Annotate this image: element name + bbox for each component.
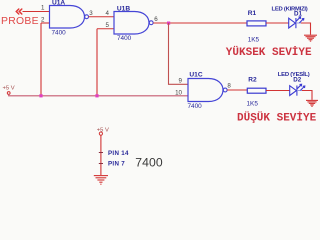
svg-text:2: 2 [41, 17, 45, 24]
pin tick 7 [99, 163, 103, 165]
LED D1 [289, 17, 304, 28]
svg-text:U1C: U1C [189, 72, 202, 79]
resistor R2 [247, 88, 266, 93]
+5V rail wire to U1C pin10 [9, 94, 188, 95]
svg-text:U1A: U1A [52, 0, 65, 7]
svg-text:1K5: 1K5 [248, 36, 260, 43]
+5V power terminal (left) [3, 85, 15, 94]
svg-text:PIN 14: PIN 14 [108, 150, 129, 157]
nand gate U1A [50, 6, 89, 29]
svg-text:1K5: 1K5 [247, 101, 259, 108]
svg-text:DÜŞÜK SEVİYE: DÜŞÜK SEVİYE [237, 112, 317, 125]
svg-text:U1B: U1B [117, 6, 130, 13]
svg-text:R1: R1 [248, 10, 257, 17]
svg-text:7400: 7400 [117, 35, 132, 42]
svg-text:10: 10 [175, 90, 182, 97]
ground (D2) [306, 100, 318, 106]
svg-text:9: 9 [179, 78, 183, 85]
wire junction down to U1C pin9 [169, 23, 189, 84]
svg-text:3: 3 [89, 10, 93, 17]
svg-text:7400: 7400 [52, 29, 67, 36]
svg-text:4: 4 [106, 10, 110, 17]
junction node at U1B output [167, 22, 170, 25]
wire U1B pin6 to R1 [153, 22, 247, 24]
nand gate U1C [188, 79, 227, 102]
svg-text:7400: 7400 [188, 103, 203, 110]
ground (bottom) [94, 176, 108, 185]
svg-text:YÜKSEK SEVİYE: YÜKSEK SEVİYE [226, 46, 312, 59]
wire R2 to LED D2 [266, 90, 290, 92]
LED D2 [290, 84, 305, 95]
resistor R1 [247, 21, 266, 26]
svg-text:PIN 7: PIN 7 [108, 161, 125, 168]
svg-text:6: 6 [154, 16, 158, 23]
svg-text:LED (KIRMIZI): LED (KIRMIZI) [272, 7, 308, 13]
wire pin2 down to +5V rail [40, 23, 42, 96]
wire D2 to ground [302, 91, 312, 100]
svg-text:D1: D1 [294, 11, 302, 18]
svg-text:8: 8 [227, 83, 231, 90]
wire probe to U1A pin1 [23, 11, 50, 13]
probe input chevron [16, 9, 22, 14]
svg-text:PROBE: PROBE [1, 16, 39, 27]
wire D1 to ground [301, 23, 311, 35]
svg-text:+5 V: +5 V [3, 85, 15, 91]
+5V power terminal (bottom) [97, 127, 109, 135]
svg-text:7400: 7400 [135, 156, 163, 170]
wire pin5 down to +5V rail [96, 29, 98, 96]
svg-text:5: 5 [106, 22, 110, 29]
wire U1C pin8 to R2 [227, 89, 247, 91]
nand gate U1B [114, 12, 153, 35]
svg-text:1: 1 [41, 5, 45, 12]
ground (D1) [304, 35, 317, 41]
svg-text:R2: R2 [248, 77, 257, 84]
wire U1B pin5 stub [97, 28, 114, 30]
pin tick 14 [99, 152, 103, 154]
wire R1 to LED D1 [266, 22, 289, 24]
wire +5V down to ground [100, 135, 102, 175]
wire U1A pin2 stub [41, 22, 50, 24]
junction node rail x41 [39, 94, 42, 97]
svg-text:+5 V: +5 V [97, 127, 109, 133]
wire U1A pin3 to U1B pin4 [89, 16, 115, 18]
svg-text:D2: D2 [293, 76, 301, 83]
junction node rail x97 [95, 94, 98, 97]
